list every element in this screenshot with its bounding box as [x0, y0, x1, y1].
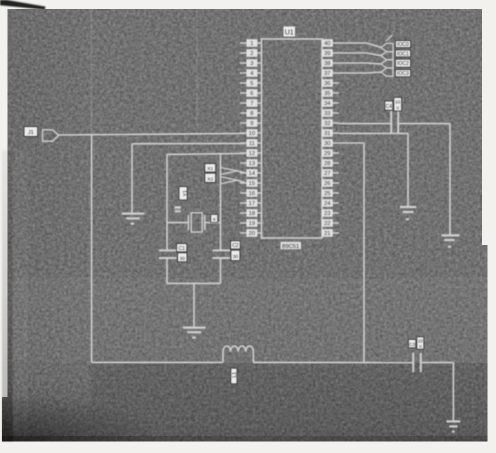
U1 left pin 5 number box — [246, 79, 257, 87]
capacitor C3 designator label — [408, 339, 415, 348]
ground bottom right — [446, 421, 460, 431]
U1 right pin 22 number box — [322, 219, 333, 227]
U1 left pin 8 stub — [240, 112, 262, 114]
svg-text:IOC3: IOC3 — [397, 71, 409, 77]
svg-text:J1: J1 — [28, 130, 34, 136]
U1 left pin 18 stub — [240, 212, 262, 214]
U1 right pin 35 stub — [322, 92, 339, 94]
U1 left pin 3 stub — [240, 62, 262, 64]
capacitor C1 top plate — [159, 249, 177, 251]
scan crease above J1 wire — [90, 10, 92, 135]
U1 right pin 25 number box — [322, 189, 333, 197]
net label IOC1 — [395, 50, 410, 58]
wire from crystal left to crystal — [167, 222, 188, 224]
U1 right pin 37 stub — [322, 72, 339, 74]
svg-text:39: 39 — [324, 51, 330, 57]
U1 left pin 5 stub — [240, 82, 262, 84]
U1 right pin 30 number box — [322, 139, 333, 147]
U1 left pin 3 number box — [246, 59, 257, 67]
wire U1 pin 12 to crystal frame top — [167, 153, 245, 154]
svg-text:37: 37 — [324, 71, 330, 77]
U1 left pin 16 stub — [240, 192, 262, 194]
svg-text:8: 8 — [250, 111, 253, 117]
U1 left pin 13 number box — [246, 159, 257, 167]
wire down from pin 31 wire — [407, 133, 409, 206]
svg-text:30: 30 — [324, 141, 330, 147]
svg-text:27: 27 — [324, 171, 330, 177]
U1 reference designator label — [284, 27, 296, 37]
U1 left pin 19 stub — [240, 222, 262, 224]
svg-text:L1: L1 — [232, 372, 238, 378]
port flag IOC1 — [381, 52, 393, 60]
svg-text:40: 40 — [324, 41, 330, 47]
svg-text:U1: U1 — [285, 30, 294, 37]
scan crease above crystal ground — [196, 10, 198, 129]
svg-text:C4: C4 — [386, 104, 393, 110]
svg-text:IOC1: IOC1 — [397, 51, 409, 57]
svg-text:X1: X1 — [207, 166, 213, 172]
U1 left pin 17 number box — [246, 199, 257, 207]
svg-text:19: 19 — [249, 221, 255, 227]
svg-text:1: 1 — [250, 41, 253, 47]
U1 left pin 9 stub — [240, 122, 262, 124]
port flag IOC0 — [381, 43, 393, 51]
wire from J1 net down to bottom rail — [91, 135, 93, 363]
wire U1 pin 32 to capacitor C4 — [339, 123, 391, 125]
capacitor C2 designator label — [231, 241, 241, 249]
U1 right pin 32 number box — [322, 119, 333, 127]
capacitor C3 value label — [417, 337, 424, 349]
crystal Y1 left plate — [187, 215, 189, 230]
svg-text:14: 14 — [249, 171, 256, 177]
svg-text:Y1: Y1 — [183, 190, 189, 196]
svg-text:34: 34 — [324, 101, 331, 107]
capacitor C4 designator label — [385, 101, 393, 110]
svg-text:15: 15 — [249, 181, 255, 187]
wire from U1 pin 38 to port P2 — [339, 62, 381, 65]
net label XTAL1 — [205, 164, 216, 173]
svg-text:X2: X2 — [207, 176, 213, 182]
svg-text:12: 12 — [249, 151, 255, 157]
wire from J1 to U1 pin 10 — [59, 133, 245, 135]
svg-text:30: 30 — [180, 256, 186, 262]
U1 right pin 36 stub — [322, 82, 339, 84]
U1 right pin 27 stub — [322, 172, 339, 174]
wire crystal frame left side lower — [166, 258, 168, 283]
U1 right pin 29 number box — [322, 149, 333, 157]
connector J1 designator label — [24, 127, 38, 137]
net label IOC3 — [395, 70, 410, 78]
svg-text:36: 36 — [324, 81, 330, 87]
U1 left pin 4 number box — [246, 69, 257, 77]
net flag XTAL2 chevron — [221, 177, 237, 184]
small label right of crystal — [211, 214, 218, 222]
U1 right pin 25 stub — [322, 192, 339, 194]
capacitor C2 value label — [231, 250, 240, 260]
svg-text:17: 17 — [249, 201, 255, 207]
inductor L1 right lead — [252, 352, 254, 363]
bottom rail wire middle segment — [253, 361, 413, 363]
capacitor C4 plate right — [397, 111, 399, 134]
inductor L1 left lead — [222, 352, 224, 363]
wire down right of U1 to bottom rail — [363, 143, 365, 362]
binding shadow along left edge — [2, 150, 13, 442]
capacitor C4 plate left — [390, 111, 392, 134]
svg-text:a: a — [213, 217, 216, 222]
svg-text:89C51: 89C51 — [282, 244, 299, 250]
ground for node EA — [441, 235, 459, 246]
U1 right pin 31 stub — [322, 132, 339, 134]
svg-text:10: 10 — [249, 131, 255, 137]
U1 left pin 4 stub — [240, 72, 262, 74]
svg-text:9: 9 — [250, 121, 253, 127]
U1 left pin 15 stub — [240, 182, 262, 184]
net label XTAL2 — [205, 173, 216, 182]
capacitor C1 bottom plate — [159, 257, 177, 259]
port flag IOC2 — [381, 60, 393, 68]
U1 right pin 38 number box — [322, 59, 333, 67]
svg-text:IOC0: IOC0 — [397, 42, 409, 48]
crystal Y1 body — [191, 213, 202, 232]
net flag XTAL1 chevron — [221, 168, 237, 175]
U1 right pin 31 number box — [322, 129, 333, 137]
U1 right pin 39 number box — [322, 49, 333, 57]
U1 left pin 1 stub — [240, 42, 262, 44]
U1 right pin 23 stub — [322, 212, 339, 214]
svg-text:32: 32 — [324, 121, 330, 127]
U1 right pin 34 stub — [322, 102, 339, 104]
U1 left pin 7 stub — [240, 102, 262, 104]
svg-text:C3: C3 — [409, 342, 415, 348]
svg-text:10: 10 — [395, 99, 401, 104]
U1 left pin 11 stub — [240, 142, 262, 144]
U1 right pin 23 number box — [322, 209, 333, 217]
net label IOC0 — [395, 41, 410, 49]
wire capacitor C4 to node EA corner — [398, 123, 450, 125]
U1 left pin 15 number box — [246, 179, 257, 187]
connector J1 plug symbol — [43, 130, 59, 141]
svg-text:28: 28 — [324, 161, 330, 167]
wire from U1 pin 40 to port P0 — [339, 43, 381, 48]
svg-text:21: 21 — [324, 231, 330, 237]
U1 left pin 20 number box — [246, 229, 257, 237]
wire U1 pin 30 to the right — [339, 142, 364, 144]
U1 right pin 29 stub — [322, 152, 339, 154]
wire from U1 pin 37 to port P3 — [339, 71, 381, 74]
svg-text:2: 2 — [250, 51, 253, 57]
svg-text:7: 7 — [250, 101, 253, 107]
U1 left pin 11 number box — [246, 139, 257, 147]
ground below pin 31 wire — [400, 207, 416, 219]
svg-text:18: 18 — [249, 211, 255, 217]
U1 right pin 28 stub — [322, 162, 339, 164]
U1 right pin 21 stub — [322, 232, 339, 234]
svg-text:5: 5 — [250, 81, 253, 87]
U1 left pin 7 number box — [246, 99, 257, 107]
wire U1 pin 31 to ground stem — [339, 132, 408, 134]
wire node EA down to ground — [449, 124, 451, 235]
capacitor C1 value label — [178, 253, 187, 262]
U1 right pin 24 stub — [322, 202, 339, 204]
stray pen tick above port flags — [386, 35, 393, 41]
U1 left pin 14 stub — [240, 172, 262, 174]
U1 left pin 6 number box — [246, 89, 257, 97]
U1 right pin 30 stub — [322, 142, 339, 144]
svg-text:16: 16 — [249, 191, 255, 197]
scanner streak top-left corner — [0, 0, 46, 10]
svg-text:u: u — [396, 105, 399, 110]
svg-text:C2: C2 — [232, 243, 239, 249]
U1 left pin 2 stub — [240, 52, 262, 54]
inductor L1 coil — [223, 346, 253, 352]
svg-text:20: 20 — [249, 231, 255, 237]
svg-text:25: 25 — [324, 191, 330, 197]
wire XTAL1 flag to U1 pin 14 — [237, 171, 245, 173]
wire from crystal frame bottom down — [193, 283, 195, 327]
U1 right pin 32 stub — [322, 122, 339, 124]
bottom rail wire right segment — [421, 362, 454, 364]
U1 left pin 16 number box — [246, 189, 257, 197]
U1 part number label 89C51 — [281, 242, 302, 250]
U1 right pin 37 number box — [322, 69, 333, 77]
capacitor C1 designator label — [177, 244, 187, 252]
U1 right pin 35 number box — [322, 89, 333, 97]
svg-text:35: 35 — [324, 91, 330, 97]
U1 right pin 36 number box — [322, 79, 333, 87]
svg-text:6: 6 — [250, 91, 253, 97]
wire U1 pin 11 to the left — [132, 142, 245, 144]
ground below crystal — [183, 328, 206, 338]
U1 right pin 33 number box — [322, 109, 333, 117]
U1 left pin 1 number box — [246, 39, 257, 47]
U1 right pin 40 stub — [322, 42, 339, 44]
U1 left pin 12 stub — [240, 152, 262, 154]
svg-text:C1: C1 — [178, 246, 185, 252]
wire XTAL2 flag to U1 pin 15 — [237, 180, 245, 182]
U1 right pin 27 number box — [322, 169, 333, 177]
U1 right pin 34 number box — [322, 99, 333, 107]
svg-text:26: 26 — [324, 181, 330, 187]
U1 right pin 26 number box — [322, 179, 333, 187]
U1 right pin 33 stub — [322, 112, 339, 114]
wire from U1 pin 39 to port P1 — [339, 53, 381, 56]
svg-text:3: 3 — [250, 61, 253, 67]
wire from crystal to right bus — [205, 222, 221, 224]
svg-text:30: 30 — [233, 254, 239, 260]
svg-text:29: 29 — [324, 151, 330, 157]
svg-text:4M: 4M — [175, 207, 181, 212]
U1 left pin 17 stub — [240, 202, 262, 204]
U1 left pin 20 stub — [240, 232, 262, 234]
U1 left pin 10 number box — [246, 129, 257, 137]
bottom rail wire left segment — [92, 361, 223, 363]
microcontroller U1 body — [262, 39, 323, 238]
U1 right pin 22 stub — [322, 222, 339, 224]
U1 right pin 26 stub — [322, 182, 339, 184]
U1 left pin 8 number box — [246, 109, 257, 117]
U1 right pin 40 number box — [322, 39, 333, 47]
svg-text:24: 24 — [324, 201, 331, 207]
wire crystal frame left side upper — [166, 154, 168, 250]
U1 left pin 18 number box — [246, 209, 257, 217]
U1 right pin 21 number box — [322, 229, 333, 237]
capacitor C2 bottom plate — [212, 257, 230, 259]
svg-text:11: 11 — [249, 141, 255, 147]
U1 left pin 13 stub — [240, 162, 262, 164]
port flag IOC3 — [381, 68, 393, 76]
capacitor C3 plate right — [420, 353, 422, 372]
U1 right pin 24 number box — [322, 199, 333, 207]
U1 right pin 39 stub — [322, 52, 339, 54]
svg-text:38: 38 — [324, 61, 330, 67]
U1 left pin 14 number box — [246, 169, 257, 177]
svg-text:31: 31 — [324, 131, 330, 137]
svg-text:22: 22 — [324, 221, 330, 227]
crystal Y1 right plate — [204, 215, 206, 230]
U1 left pin 9 number box — [246, 119, 257, 127]
wire down to bottom right ground — [452, 363, 454, 421]
capacitor C2 top plate — [212, 249, 230, 251]
capacitor C3 plate left — [412, 353, 414, 373]
net label IOC2 — [395, 59, 410, 67]
ground left of crystal — [122, 214, 144, 224]
wire crystal frame right bus upper — [220, 154, 222, 250]
wire crystal frame bottom — [167, 282, 221, 284]
U1 right pin 38 stub — [322, 62, 339, 64]
wire crystal frame right bus lower — [220, 258, 222, 283]
inductor L1 designator label — [231, 368, 238, 384]
wire down to ground left of crystal — [131, 144, 133, 213]
crystal Y1 designator label — [179, 187, 189, 200]
svg-text:13: 13 — [249, 161, 255, 167]
U1 left pin 10 stub — [240, 132, 262, 134]
U1 left pin 12 number box — [246, 149, 257, 157]
svg-text:23: 23 — [324, 211, 330, 217]
svg-text:33: 33 — [324, 111, 330, 117]
crystal Y1 small value label — [175, 206, 181, 212]
U1 left pin 19 number box — [246, 219, 257, 227]
capacitor C4 value label — [394, 97, 402, 111]
U1 left pin 6 stub — [240, 92, 262, 94]
svg-text:IOC2: IOC2 — [397, 61, 409, 67]
U1 right pin 28 number box — [322, 159, 333, 167]
U1 left pin 2 number box — [246, 49, 257, 57]
